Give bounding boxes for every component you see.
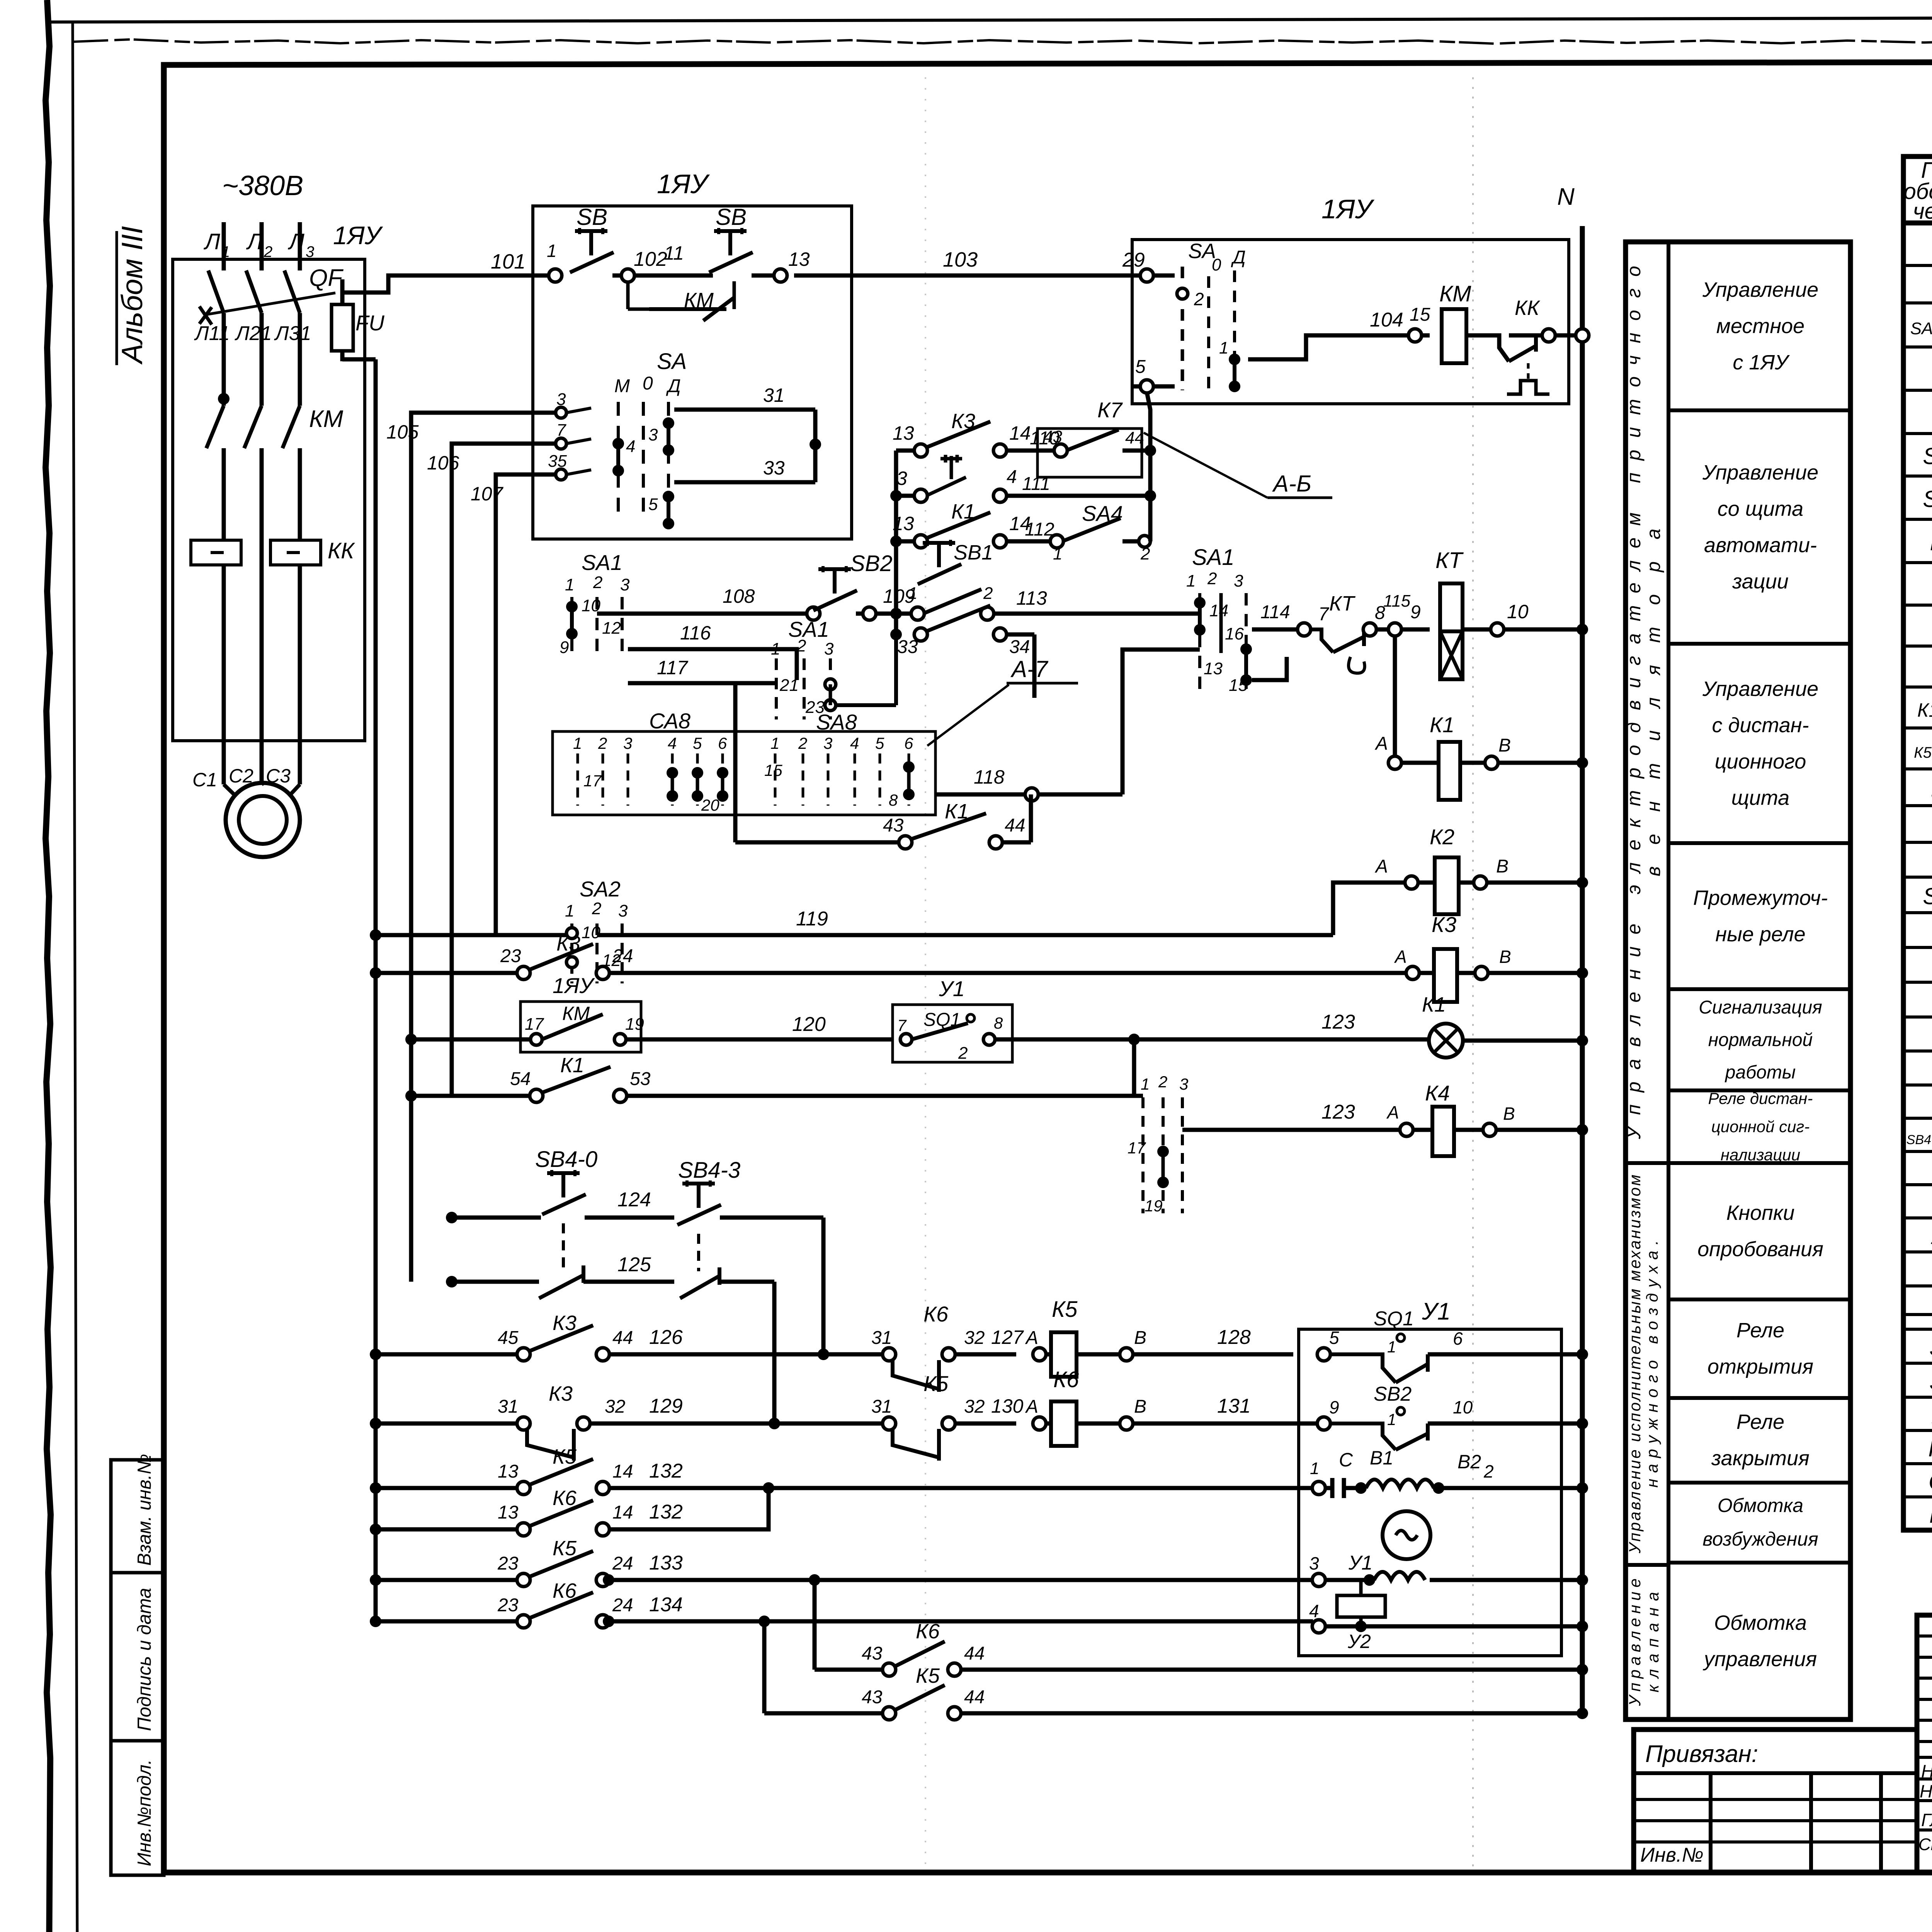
svg-text:чение: чение <box>1913 199 1932 224</box>
svg-text:SB4-0,SB4-3: SB4-0,SB4-3 <box>1906 1133 1932 1147</box>
title block frame <box>1634 1615 1932 1872</box>
svg-text:132: 132 <box>649 1501 683 1523</box>
svg-text:В: В <box>1499 947 1511 967</box>
contactor coil KM <box>1442 309 1466 363</box>
svg-text:1: 1 <box>565 575 574 594</box>
contact K5 43-44 <box>764 1711 883 1716</box>
svg-text:А: А <box>1386 1102 1399 1122</box>
title block texts <box>1640 1645 1932 1868</box>
svg-text:17: 17 <box>525 1015 544 1034</box>
svg-text:43: 43 <box>883 815 904 836</box>
svg-text:К3: К3 <box>553 1311 577 1335</box>
svg-text:24: 24 <box>612 946 633 966</box>
svg-text:1: 1 <box>547 241 557 261</box>
svg-text:19: 19 <box>625 1015 644 1034</box>
svg-text:5: 5 <box>1135 357 1146 377</box>
svg-text:10: 10 <box>582 923 600 942</box>
svg-text:129: 129 <box>649 1395 683 1417</box>
time relay coil KT <box>1440 583 1463 631</box>
svg-text:ционного: ционного <box>1715 750 1806 773</box>
svg-text:3: 3 <box>620 575 630 594</box>
svg-text:Управление исполнительным ме: Управление исполнительным механизмом <box>1626 1175 1644 1554</box>
relay coil K4 <box>1432 1107 1454 1156</box>
svg-text:Д: Д <box>666 376 681 396</box>
svg-text:Гл.инж.: Гл.инж. <box>1921 1810 1932 1830</box>
svg-text:113: 113 <box>1016 587 1047 609</box>
svg-text:15: 15 <box>764 761 782 779</box>
svg-text:116: 116 <box>680 622 711 644</box>
svg-text:2: 2 <box>1158 1073 1167 1091</box>
svg-text:К6: К6 <box>553 1579 577 1602</box>
callout A-7 <box>927 685 1009 746</box>
svg-text:FU: FU <box>1929 1502 1932 1528</box>
svg-text:3: 3 <box>824 639 834 658</box>
svg-text:А: А <box>1025 1396 1038 1417</box>
riser 106 <box>452 444 556 1096</box>
fuse FU <box>332 304 353 351</box>
svg-text:1: 1 <box>1219 338 1228 357</box>
svg-text:Ст.инж.: Ст.инж. <box>1918 1835 1932 1854</box>
svg-text:119: 119 <box>796 908 828 930</box>
svg-text:34: 34 <box>1009 637 1030 657</box>
limit switch box U1 <box>893 1005 1012 1062</box>
svg-text:Управление: Управление <box>1626 1578 1644 1706</box>
svg-text:107: 107 <box>471 483 504 505</box>
svg-text:К1, К2: К1, К2 <box>1917 699 1932 721</box>
svg-text:103: 103 <box>943 248 978 271</box>
svg-text:17: 17 <box>1128 1139 1146 1157</box>
svg-text:М: М <box>614 376 630 396</box>
svg-text:SB1: SB1 <box>954 541 993 564</box>
svg-text:3: 3 <box>618 901 628 920</box>
svg-text:местное: местное <box>1716 315 1804 338</box>
thermal contact KK <box>1466 335 1542 361</box>
svg-text:К5: К5 <box>923 1371 949 1396</box>
svg-text:2: 2 <box>1483 1461 1494 1481</box>
svg-text:Нач.отд.: Нач.отд. <box>1920 1781 1932 1801</box>
svg-text:111: 111 <box>1022 474 1050 494</box>
svg-text:35: 35 <box>548 452 567 471</box>
svg-text:SB2: SB2 <box>1374 1383 1412 1405</box>
svg-text:2: 2 <box>1140 544 1150 563</box>
svg-text:2: 2 <box>593 573 602 592</box>
svg-text:4: 4 <box>668 734 677 752</box>
svg-text:1ЯУ: 1ЯУ <box>553 973 595 998</box>
svg-text:105: 105 <box>386 421 419 443</box>
svg-text:3: 3 <box>1179 1075 1188 1093</box>
svg-text:Л21: Л21 <box>235 322 272 345</box>
svg-text:1: 1 <box>1310 1459 1319 1478</box>
svg-text:SA4: SA4 <box>1082 501 1123 526</box>
svg-text:У1: У1 <box>1422 1298 1451 1325</box>
svg-text:14: 14 <box>1209 601 1228 620</box>
svg-text:24: 24 <box>612 1553 633 1574</box>
svg-text:Обмотка: Обмотка <box>1718 1495 1803 1516</box>
svg-text:ные реле: ные реле <box>1715 923 1805 946</box>
svg-text:Инв.№: Инв.№ <box>1640 1844 1704 1866</box>
svg-text:13: 13 <box>893 422 914 444</box>
svg-text:14: 14 <box>612 1461 633 1482</box>
svg-text:104: 104 <box>1370 309 1403 331</box>
svg-text:106: 106 <box>427 452 459 474</box>
svg-text:1: 1 <box>1387 1338 1396 1356</box>
strip rotated captions <box>1623 266 1664 1706</box>
svg-text:К5: К5 <box>553 1537 577 1560</box>
svg-text:Обмотка: Обмотка <box>1714 1611 1807 1634</box>
svg-text:33: 33 <box>763 457 785 479</box>
svg-text:N: N <box>1557 184 1575 210</box>
wire 118 <box>935 650 1200 794</box>
svg-text:опробования: опробования <box>1697 1238 1823 1261</box>
svg-text:1: 1 <box>770 734 779 752</box>
svg-text:31: 31 <box>763 384 785 406</box>
svg-text:КК: КК <box>1515 296 1541 320</box>
FU bus <box>374 359 378 1621</box>
left control box 1YaU <box>533 206 852 539</box>
switch group SA8 box <box>553 731 935 815</box>
svg-text:У1: У1 <box>1348 1552 1372 1574</box>
svg-text:43: 43 <box>862 1687 883 1708</box>
svg-text:Инв.№подл.: Инв.№подл. <box>134 1759 155 1866</box>
thin sheet border left <box>73 22 77 1932</box>
right control box 1YaU <box>1132 240 1569 404</box>
svg-text:КК: КК <box>328 538 355 563</box>
svg-text:0: 0 <box>1212 255 1221 274</box>
svg-text:32: 32 <box>605 1396 625 1417</box>
svg-text:SA8: SA8 <box>816 710 857 734</box>
contact K3 45-44 <box>370 1349 381 1360</box>
contact K5 13-14 <box>370 1482 381 1494</box>
svg-text:Л11: Л11 <box>194 322 230 345</box>
svg-text:В: В <box>1134 1396 1146 1417</box>
relay coil K6 <box>1051 1401 1077 1446</box>
svg-text:3: 3 <box>823 734 832 752</box>
svg-text:Сигнализация: Сигнализация <box>1699 997 1822 1018</box>
svg-text:108: 108 <box>723 585 755 607</box>
wire 101 top control rung <box>342 276 549 293</box>
wire 114 KT rung <box>1252 628 1298 632</box>
KM aux box 1YaU <box>520 1002 641 1052</box>
svg-text:SB2: SB2 <box>1923 486 1932 512</box>
svg-text:SB4-3: SB4-3 <box>678 1158 740 1183</box>
svg-text:23: 23 <box>497 1553 519 1574</box>
svg-text:133: 133 <box>649 1552 683 1574</box>
svg-text:В1: В1 <box>1370 1447 1393 1469</box>
svg-text:44: 44 <box>964 1643 985 1664</box>
svg-text:Взам. инв.№: Взам. инв.№ <box>134 1454 155 1566</box>
svg-text:К6: К6 <box>553 1486 577 1510</box>
svg-text:Реле дистан-: Реле дистан- <box>1708 1089 1813 1107</box>
svg-text:SA1,SA2: SA1,SA2 <box>1910 319 1932 338</box>
svg-text:32: 32 <box>964 1396 985 1417</box>
svg-text:4: 4 <box>850 734 859 752</box>
left attribute boxes column <box>111 1460 164 1875</box>
svg-text:К5: К5 <box>916 1664 940 1687</box>
svg-text:N1: N1 <box>1930 529 1932 555</box>
svg-text:19: 19 <box>1145 1197 1163 1215</box>
contact K1 54-53 <box>405 1090 417 1102</box>
svg-text:13: 13 <box>788 248 810 270</box>
svg-text:15: 15 <box>1410 304 1430 325</box>
svg-text:53: 53 <box>630 1069 651 1089</box>
wire 31 <box>674 408 815 412</box>
svg-text:нормальной: нормальной <box>1708 1030 1813 1050</box>
svg-text:А-7: А-7 <box>1010 656 1049 682</box>
svg-text:23: 23 <box>497 1595 519 1616</box>
svg-text:с 1ЯУ: с 1ЯУ <box>1733 351 1790 374</box>
svg-text:В: В <box>1496 856 1509 877</box>
svg-text:К7: К7 <box>1097 398 1123 422</box>
wire 33 <box>674 480 815 485</box>
svg-text:SB: SB <box>577 204 607 230</box>
svg-text:Л31: Л31 <box>274 322 311 345</box>
svg-text:20: 20 <box>701 796 719 814</box>
svg-text:К5,К5,К6: К5,К5,К6 <box>1914 744 1932 761</box>
svg-text:14: 14 <box>1009 422 1031 444</box>
contact K6 23-24 <box>370 1616 381 1627</box>
contact K1 33-34 <box>914 628 927 641</box>
N bus <box>1580 226 1585 1713</box>
svg-text:1: 1 <box>1053 544 1062 563</box>
svg-text:К3: К3 <box>1432 912 1456 937</box>
svg-text:~380В: ~380В <box>222 170 303 201</box>
svg-text:SA4: SA4 <box>1923 883 1932 909</box>
relay coil K5 <box>1051 1332 1077 1377</box>
svg-text:зации: зации <box>1732 570 1788 593</box>
svg-text:16: 16 <box>1225 624 1244 643</box>
function strip boxes <box>1626 242 1850 1719</box>
svg-text:4: 4 <box>1309 1601 1319 1621</box>
svg-text:4: 4 <box>626 437 635 456</box>
resistor U2 <box>1337 1595 1385 1617</box>
svg-text:9: 9 <box>1410 602 1421 622</box>
svg-text:115: 115 <box>1383 592 1411 611</box>
top jagged dashed scan line <box>73 39 1932 44</box>
svg-text:КМ: КМ <box>309 406 344 432</box>
svg-text:10: 10 <box>1507 601 1529 622</box>
thermal relay KK heaters <box>191 540 241 565</box>
svg-text:В: В <box>1503 1104 1515 1124</box>
svg-text:1: 1 <box>1186 571 1196 590</box>
svg-text:КМ: КМ <box>1439 281 1471 306</box>
contact K6 43-44 <box>815 1668 883 1672</box>
svg-text:54: 54 <box>510 1069 531 1089</box>
svg-text:5: 5 <box>875 734 884 752</box>
wire 108 <box>597 612 808 616</box>
svg-text:1: 1 <box>573 734 582 752</box>
svg-text:возбуждения: возбуждения <box>1702 1528 1818 1550</box>
Album III rotated label <box>116 226 149 365</box>
svg-text:Альбом III: Альбом III <box>116 226 149 365</box>
branch to K1 <box>1393 635 1397 763</box>
svg-text:7: 7 <box>897 1016 907 1034</box>
svg-text:29: 29 <box>1122 249 1145 271</box>
svg-text:44: 44 <box>1005 815 1025 836</box>
svg-text:Промежуточ-: Промежуточ- <box>1693 886 1828 910</box>
control winding U1 <box>1312 1573 1325 1587</box>
svg-text:102: 102 <box>634 248 667 270</box>
svg-text:А: А <box>1374 856 1388 877</box>
svg-text:А: А <box>1374 733 1388 754</box>
svg-text:Д: Д <box>1231 247 1246 268</box>
svg-text:SA1: SA1 <box>788 617 829 641</box>
aux relay contact K7 box <box>1037 429 1142 477</box>
motor M <box>226 783 300 857</box>
svg-text:Н.контр.: Н.контр. <box>1921 1761 1932 1781</box>
svg-text:1ЯУ: 1ЯУ <box>657 169 710 199</box>
wire 119 to K2 <box>370 929 381 941</box>
svg-text:SA: SA <box>657 349 687 374</box>
svg-text:К6: К6 <box>1053 1367 1079 1392</box>
svg-text:1: 1 <box>908 584 917 603</box>
svg-text:101: 101 <box>491 250 526 273</box>
svg-text:С: С <box>1339 1449 1353 1471</box>
svg-text:132: 132 <box>649 1460 683 1482</box>
svg-text:1ЯУ: 1ЯУ <box>1321 194 1375 224</box>
svg-text:128: 128 <box>1217 1326 1251 1349</box>
svg-text:5: 5 <box>693 734 702 752</box>
svg-text:К6: К6 <box>916 1620 940 1643</box>
svg-text:К3: К3 <box>556 932 580 955</box>
node dot on L1 <box>218 393 230 405</box>
svg-text:КМ: КМ <box>1928 1435 1932 1461</box>
svg-text:2: 2 <box>1207 569 1217 588</box>
wire 116 <box>628 649 797 680</box>
svg-text:3: 3 <box>623 734 632 752</box>
svg-text:SB: SB <box>1929 1369 1932 1395</box>
svg-text:нализации: нализации <box>1721 1146 1800 1164</box>
svg-text:2: 2 <box>592 899 601 918</box>
contact K3 23-24 <box>370 967 381 979</box>
svg-text:щита: щита <box>1731 786 1789 810</box>
svg-text:Реле: Реле <box>1736 1410 1784 1434</box>
svg-text:Л: Л <box>203 229 220 254</box>
svg-text:6: 6 <box>718 734 727 752</box>
svg-text:5: 5 <box>648 495 658 514</box>
contactor KM main contacts <box>206 406 224 448</box>
paper top edge line <box>50 16 1932 22</box>
svg-text:2: 2 <box>264 243 272 260</box>
svg-text:125: 125 <box>617 1253 651 1276</box>
svg-text:23: 23 <box>500 946 521 966</box>
svg-text:КТ: КТ <box>1329 592 1356 615</box>
svg-text:SA1: SA1 <box>1192 545 1235 570</box>
svg-text:32: 32 <box>964 1328 985 1348</box>
svg-text:8: 8 <box>994 1014 1003 1032</box>
svg-text:2: 2 <box>798 734 807 752</box>
svg-text:0: 0 <box>643 373 653 394</box>
svg-text:123: 123 <box>1321 1101 1355 1123</box>
svg-text:118: 118 <box>974 766 1005 788</box>
svg-text:А: А <box>1394 947 1407 967</box>
svg-text:120: 120 <box>792 1013 826 1036</box>
svg-text:К5: К5 <box>553 1445 577 1468</box>
svg-text:SB: SB <box>716 204 747 230</box>
contact K5 23-24 <box>370 1574 381 1586</box>
svg-text:Подпись и дата: Подпись и дата <box>134 1588 155 1731</box>
relay coil K3 <box>1434 949 1457 1002</box>
selector SA right <box>1140 269 1153 282</box>
svg-text:SA: SA <box>1929 1335 1932 1361</box>
paper left torn edge <box>46 0 51 1932</box>
svg-text:8: 8 <box>889 791 898 809</box>
wire 117 <box>628 683 777 842</box>
svg-text:1: 1 <box>565 901 574 920</box>
svg-text:17: 17 <box>583 772 602 790</box>
KK reset symbol <box>1507 381 1549 394</box>
phase wires top <box>222 222 226 270</box>
capacitor C and field winding B1-B2 <box>1312 1481 1325 1495</box>
svg-text:7: 7 <box>1318 604 1330 624</box>
svg-text:6: 6 <box>904 734 913 752</box>
svg-text:3: 3 <box>1309 1553 1319 1573</box>
wire to KM coil <box>1248 335 1430 359</box>
svg-text:14: 14 <box>612 1502 633 1523</box>
relay coil K2 <box>1435 857 1459 914</box>
svg-text:43: 43 <box>1043 427 1062 446</box>
svg-text:SB1: SB1 <box>1923 443 1932 469</box>
svg-text:открытия: открытия <box>1708 1355 1813 1378</box>
contact K3 31-32 nc <box>370 1418 381 1429</box>
circuit breaker QF <box>208 270 224 313</box>
svg-text:СА8: СА8 <box>649 709 690 733</box>
svg-text:112: 112 <box>1025 519 1054 540</box>
svg-text:К1: К1 <box>945 800 969 823</box>
svg-text:с дистан-: с дистан- <box>1712 714 1809 737</box>
svg-text:SB2: SB2 <box>850 551 893 576</box>
svg-text:11: 11 <box>664 242 684 264</box>
svg-text:9: 9 <box>560 638 569 657</box>
svg-text:33: 33 <box>897 637 918 657</box>
svg-text:31: 31 <box>498 1396 518 1417</box>
svg-text:С1: С1 <box>192 769 217 791</box>
svg-text:со щита: со щита <box>1718 497 1803 520</box>
svg-text:2: 2 <box>1194 289 1204 309</box>
svg-text:44: 44 <box>612 1328 633 1348</box>
svg-text:закрытия: закрытия <box>1711 1447 1810 1470</box>
svg-text:1: 1 <box>1141 1075 1150 1093</box>
callout A-B <box>1144 433 1267 498</box>
break contacts row 125 <box>446 1276 457 1287</box>
svg-text:К2: К2 <box>1430 825 1454 849</box>
svg-text:117: 117 <box>657 657 689 679</box>
svg-text:А: А <box>1025 1328 1038 1348</box>
svg-text:9: 9 <box>1329 1397 1339 1417</box>
svg-text:К1: К1 <box>951 500 975 523</box>
pushbutton SB4-0 <box>446 1212 457 1223</box>
svg-text:FU: FU <box>355 311 384 335</box>
svg-text:SB4-0: SB4-0 <box>535 1147 597 1172</box>
svg-text:3: 3 <box>306 243 314 260</box>
svg-text:QF: QF <box>1929 1469 1932 1495</box>
sync motor symbol in U1 <box>1383 1511 1430 1559</box>
table header <box>1904 158 1932 224</box>
contact K3 13-14 <box>896 449 915 453</box>
svg-text:3: 3 <box>1234 571 1243 590</box>
parts list table grid <box>1903 156 1932 1530</box>
svg-text:ционной сиг-: ционной сиг- <box>1711 1117 1810 1136</box>
svg-text:В2: В2 <box>1458 1451 1481 1473</box>
svg-text:К4: К4 <box>1425 1081 1450 1105</box>
svg-text:Реле: Реле <box>1736 1319 1784 1342</box>
contact K6 13-14 <box>370 1524 381 1535</box>
svg-text:13: 13 <box>1204 659 1223 678</box>
svg-text:130: 130 <box>991 1395 1024 1417</box>
svg-text:SQ1: SQ1 <box>1374 1308 1414 1330</box>
svg-text:127: 127 <box>991 1327 1024 1348</box>
svg-text:124: 124 <box>617 1189 651 1211</box>
svg-text:1: 1 <box>1387 1410 1396 1429</box>
